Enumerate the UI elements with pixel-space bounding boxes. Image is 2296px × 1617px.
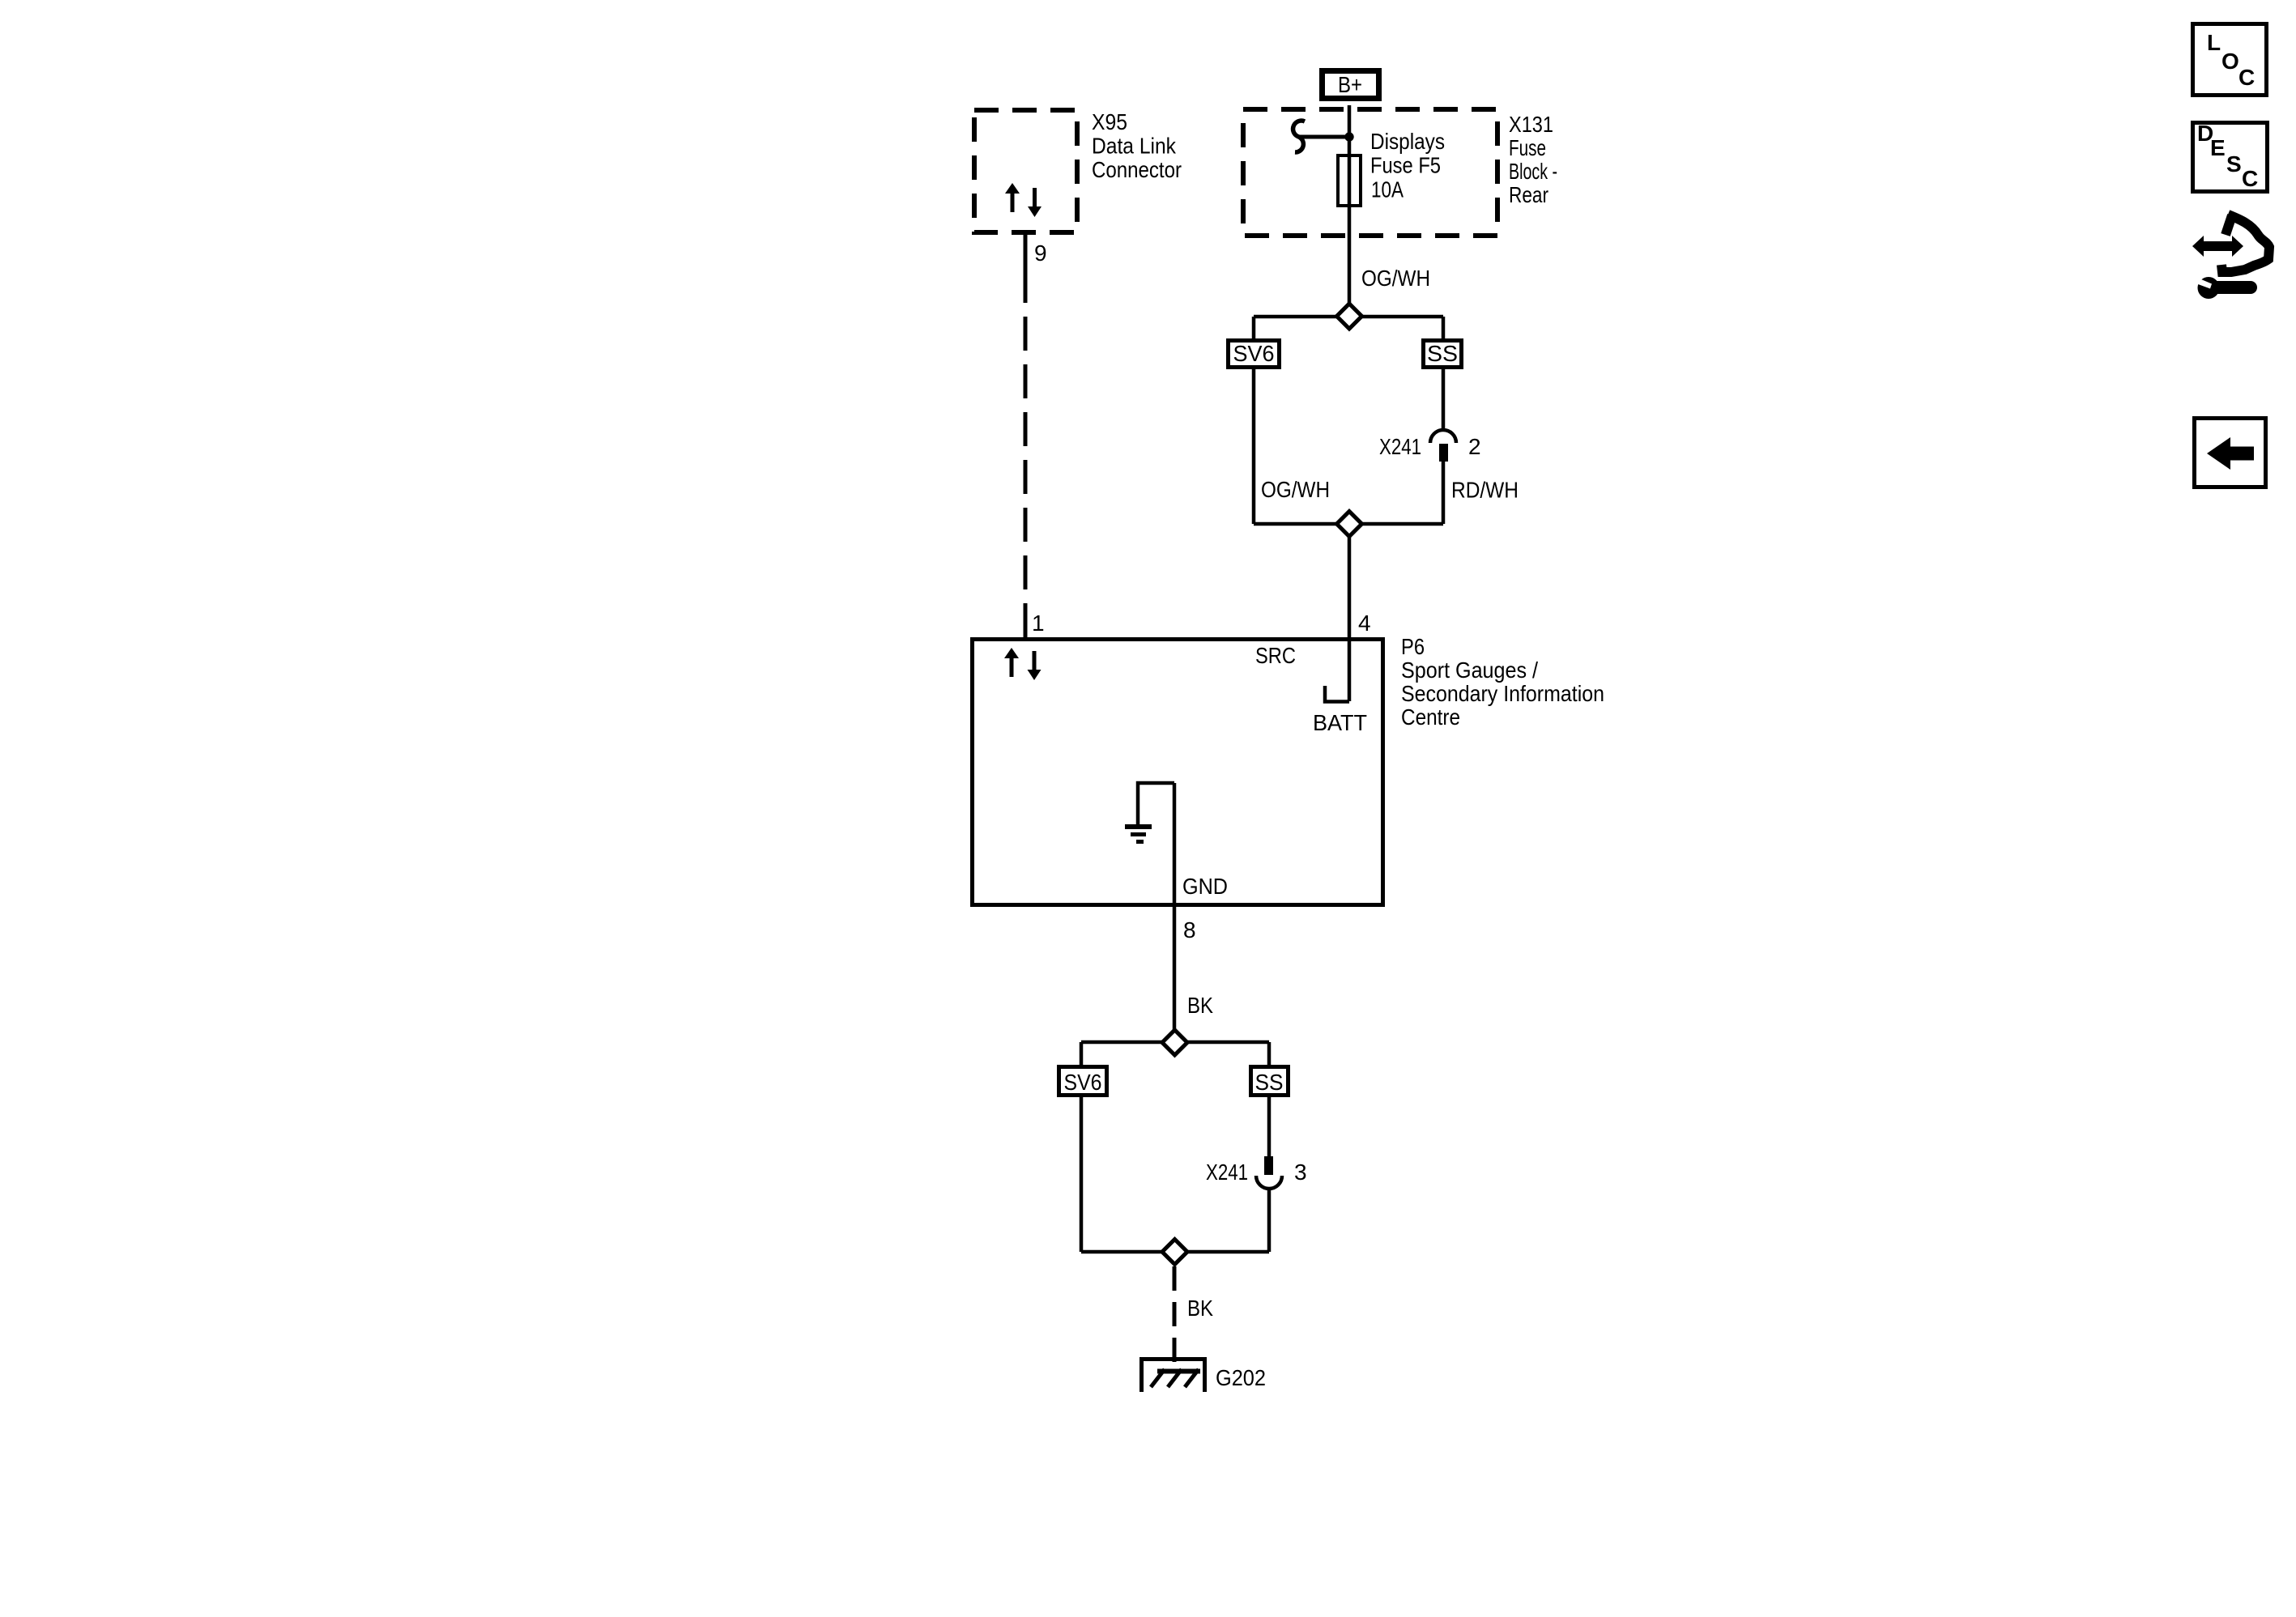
label pin 4 <box>1358 611 1371 636</box>
wire X241 pin 3 to fourth splice <box>1267 1189 1272 1252</box>
wire SS lower to X241 pin 3 <box>1267 1097 1272 1156</box>
splice diamond lower <box>1337 512 1362 537</box>
connector X241 pin 3 terminal <box>1264 1156 1273 1175</box>
label X241 (pin 2) <box>1379 434 1421 459</box>
label G202 <box>1216 1365 1266 1390</box>
svg-text:OG/WH: OG/WH <box>1261 477 1330 502</box>
label BK (ground lead) <box>1187 1296 1213 1321</box>
splice diamond upper <box>1337 304 1362 329</box>
connector code SS box (upper) <box>1424 341 1462 368</box>
svg-text:10A: 10A <box>1371 177 1404 202</box>
svg-text:SV6: SV6 <box>1064 1070 1102 1095</box>
label Displays Fuse F5 10A <box>1370 129 1445 202</box>
svg-text:SRC: SRC <box>1255 643 1296 668</box>
label X241 (pin 3) <box>1206 1160 1248 1185</box>
svg-text:C: C <box>2242 166 2258 191</box>
bus wire third splice <box>1081 1040 1269 1045</box>
svg-text:9: 9 <box>1034 240 1047 266</box>
wire splice to P6 pin 4 BATT <box>1348 524 1352 701</box>
label OG/WH (SV6 branch) <box>1261 477 1330 502</box>
icon back arrow box <box>2195 419 2266 487</box>
dashed wire splice to ground G202, BK <box>1173 1266 1177 1368</box>
connector X241 pin 2 terminal <box>1439 444 1448 462</box>
wire X241 pin 2 to lower splice, RD/WH <box>1442 462 1446 524</box>
up arrow in X95 <box>1005 183 1020 212</box>
connector X241 pin 2 socket arc <box>1430 430 1456 443</box>
battery feed B+ box <box>1323 71 1379 99</box>
svg-text:8: 8 <box>1183 917 1196 943</box>
ground G202 hatches <box>1151 1369 1199 1387</box>
junction dot at fuse feed <box>1344 132 1353 141</box>
connector code SV6 box (upper) <box>1229 341 1280 368</box>
svg-text:OG/WH: OG/WH <box>1361 266 1430 291</box>
svg-text:X241: X241 <box>1206 1160 1248 1185</box>
svg-text:Displays: Displays <box>1370 129 1445 154</box>
wire splice to SV6 lower <box>1080 1042 1084 1065</box>
label pin 1 <box>1032 611 1045 636</box>
svg-text:S: S <box>2226 151 2242 177</box>
wire splice to SS <box>1442 317 1446 338</box>
wire splice to SS lower <box>1267 1042 1272 1065</box>
icon LOC box <box>2193 24 2267 96</box>
internal ground bracket in P6 <box>1138 783 1174 824</box>
fuse F5 body <box>1338 155 1361 206</box>
fuse element tap wire <box>1299 135 1349 139</box>
down arrow in P6 <box>1028 651 1042 680</box>
wire SS down to X241 pin 2 <box>1442 369 1446 430</box>
connector code SV6 box (lower) <box>1059 1067 1107 1096</box>
wire SV6 down to lower splice <box>1252 369 1256 524</box>
svg-text:X241: X241 <box>1379 434 1421 459</box>
svg-text:SS: SS <box>1427 341 1458 366</box>
svg-text:O: O <box>2221 49 2239 74</box>
svg-text:4: 4 <box>1358 611 1371 636</box>
label X131 Fuse Block - Rear <box>1509 112 1557 207</box>
connector X241 pin 3 socket arc <box>1256 1176 1282 1189</box>
svg-text:E: E <box>2210 135 2226 160</box>
fuse element curve <box>1293 121 1305 152</box>
svg-text:Rear: Rear <box>1509 182 1548 207</box>
wire B+ through fuse F5 to splice <box>1348 105 1352 316</box>
label pin 3 <box>1294 1160 1307 1185</box>
bus wire fourth splice <box>1081 1250 1269 1254</box>
data link connector X95 dashed box <box>974 110 1077 232</box>
ground G202 bar <box>1157 1369 1200 1374</box>
svg-text:Sport Gauges /: Sport Gauges / <box>1401 657 1538 683</box>
label BK (GND lead) <box>1187 993 1213 1018</box>
label GND <box>1182 874 1228 899</box>
svg-text:1: 1 <box>1032 611 1045 636</box>
svg-text:L: L <box>2207 30 2221 55</box>
P6 module box <box>973 640 1383 905</box>
splice diamond fourth <box>1162 1240 1187 1265</box>
label pin 8 <box>1183 917 1196 943</box>
svg-text:GND: GND <box>1182 874 1228 899</box>
label RD/WH (SS branch) <box>1451 478 1519 503</box>
label BATT <box>1313 710 1367 735</box>
icon wrench <box>2195 277 2251 299</box>
label pin 9 <box>1034 240 1047 266</box>
wire SV6 lower to fourth splice <box>1080 1097 1084 1252</box>
svg-text:P6: P6 <box>1401 634 1425 659</box>
ground G202 frame <box>1142 1360 1205 1393</box>
P6 pin 1 stub <box>1024 607 1028 637</box>
svg-text:BATT: BATT <box>1313 710 1367 735</box>
label X95 Data Link Connector <box>1092 109 1182 182</box>
svg-text:Centre: Centre <box>1401 704 1460 730</box>
svg-text:RD/WH: RD/WH <box>1451 478 1519 503</box>
svg-text:2: 2 <box>1468 434 1481 459</box>
svg-text:X95: X95 <box>1092 109 1127 134</box>
svg-text:G202: G202 <box>1216 1365 1266 1390</box>
svg-text:Connector: Connector <box>1092 157 1182 182</box>
svg-text:Fuse: Fuse <box>1509 135 1546 160</box>
svg-text:B+: B+ <box>1338 72 1362 97</box>
svg-text:SV6: SV6 <box>1233 341 1275 366</box>
BATT pin socket bracket <box>1325 686 1349 702</box>
icon schematic hook outline <box>2221 215 2269 272</box>
svg-text:Data Link: Data Link <box>1092 134 1177 159</box>
connector code SS box (lower) <box>1251 1067 1289 1096</box>
up arrow in P6 <box>1004 648 1019 677</box>
label OG/WH (fuse output) <box>1361 266 1430 291</box>
label P6 Sport Gauges / Secondary Information Centre <box>1401 634 1604 730</box>
svg-text:X131: X131 <box>1509 112 1553 137</box>
svg-text:SS: SS <box>1255 1070 1284 1095</box>
svg-text:Secondary Information: Secondary Information <box>1401 681 1604 706</box>
down arrow in X95 <box>1028 188 1042 217</box>
dashed wire X95 pin 9 to P6 pin 1 <box>1024 269 1028 607</box>
wire GND pin 8 <box>1173 783 1177 1042</box>
bus wire lower splice <box>1254 522 1443 526</box>
label SRC <box>1255 643 1296 668</box>
label pin 2 <box>1468 434 1481 459</box>
fuse block X131 dashed box <box>1243 109 1497 236</box>
svg-text:3: 3 <box>1294 1160 1307 1185</box>
svg-text:Block -: Block - <box>1509 159 1557 184</box>
svg-text:BK: BK <box>1187 993 1213 1018</box>
icon schematic double arrow <box>2192 236 2243 257</box>
svg-text:BK: BK <box>1187 1296 1213 1321</box>
svg-text:Fuse F5: Fuse F5 <box>1370 153 1441 178</box>
svg-text:C: C <box>2238 65 2255 90</box>
splice diamond third <box>1162 1030 1187 1055</box>
internal ground symbol bars <box>1125 827 1152 842</box>
X95 pin 9 stub <box>1024 235 1028 269</box>
wire splice to SV6 <box>1252 317 1256 338</box>
bus wire upper splice <box>1254 315 1443 319</box>
icon DESC box <box>2193 121 2268 192</box>
